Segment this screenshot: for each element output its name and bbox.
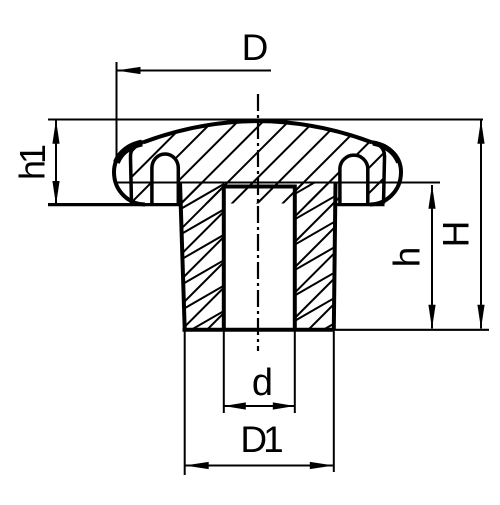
centerline bbox=[257, 94, 259, 351]
dim D extension line bbox=[116, 62, 118, 160]
node line under-face level bbox=[116, 182, 440, 184]
svg-text:D1: D1 bbox=[240, 419, 283, 460]
dim d arrows bbox=[224, 402, 246, 409]
hub bottom edge bbox=[183, 328, 335, 332]
cap left section edge bbox=[130, 142, 143, 203]
dim D1 line bbox=[185, 465, 334, 467]
cap top outline bbox=[144, 121, 372, 142]
cap right rim silhouette bbox=[370, 142, 401, 204]
cap underside left bbox=[48, 203, 181, 206]
dim D arrow bbox=[117, 67, 141, 74]
dim D1 extension lines bbox=[184, 331, 186, 475]
svg-text:D: D bbox=[242, 27, 269, 68]
bottom extension line to H/h bbox=[335, 329, 490, 331]
hatching hub insert bbox=[0, 178, 500, 334]
svg-text:h: h bbox=[387, 247, 428, 268]
slot recess left (white fill) bbox=[152, 154, 178, 204]
cap underside right bbox=[335, 203, 385, 206]
dim d extension lines bbox=[223, 331, 225, 413]
svg-text:d: d bbox=[252, 362, 273, 404]
hub wall right bbox=[334, 182, 336, 329]
dim h1 arrows bbox=[52, 120, 59, 144]
dim H arrows bbox=[477, 120, 484, 144]
cap right section edge bbox=[372, 142, 385, 203]
slot recess right (white fill) bbox=[340, 155, 368, 204]
dim D line bbox=[117, 70, 272, 72]
dim h arrows bbox=[428, 185, 435, 209]
dim h1 line bbox=[55, 120, 57, 205]
dim top extension line (h1 + H) bbox=[48, 119, 483, 121]
hatching cap bbox=[68, 90, 497, 215]
slot recess left outline bbox=[152, 154, 178, 204]
slot recess right outline bbox=[340, 155, 368, 204]
hole outline bbox=[224, 187, 295, 332]
dim h line bbox=[431, 185, 433, 329]
hub wall left bbox=[180, 182, 185, 329]
svg-text:H: H bbox=[436, 221, 477, 248]
cap right rim thick band bbox=[373, 143, 399, 163]
dim d line bbox=[224, 405, 295, 407]
dim D1 arrows bbox=[185, 462, 209, 469]
cap left rim silhouette bbox=[114, 142, 145, 204]
cap left rim thick band bbox=[116, 143, 142, 163]
svg-text:h1: h1 bbox=[12, 144, 53, 180]
dim H line bbox=[480, 120, 482, 329]
